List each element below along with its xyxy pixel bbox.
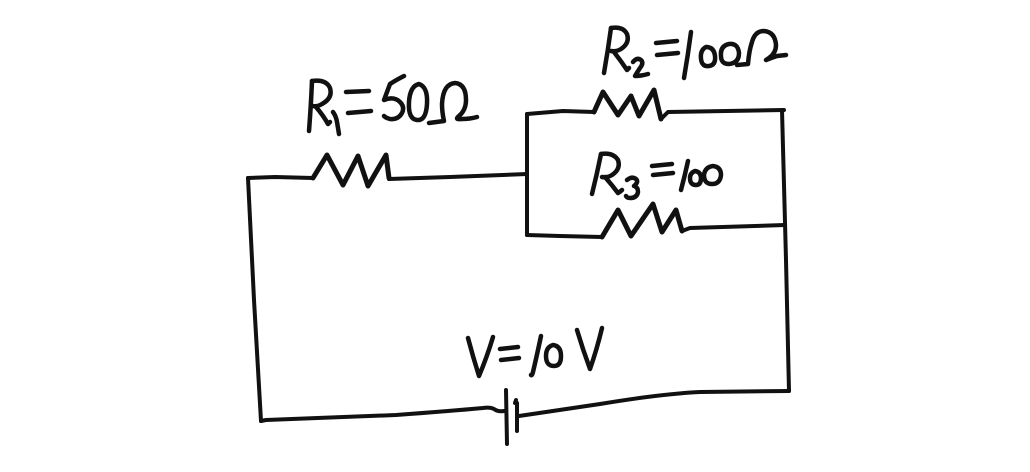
ohm symbol (737, 31, 786, 65)
digit 1 (531, 336, 541, 375)
wire: bottom wire right of battery to bottom-right corner (519, 391, 789, 416)
wire: left edge of outer loop (248, 178, 261, 421)
resistor R1 (313, 155, 389, 186)
equals sign (652, 164, 672, 166)
subscript 2 of R2 (633, 59, 648, 76)
digit 5 (384, 76, 404, 119)
battery V1 long plate (positive) (506, 390, 507, 444)
equals sign (656, 41, 677, 43)
letter R of R3 (592, 154, 601, 194)
equals sign (346, 91, 369, 92)
letter R of R2 (604, 28, 611, 73)
subscript 1 of R1 (333, 112, 339, 134)
digit 0 (701, 47, 715, 66)
wire: box bottom edge left of R3 (527, 235, 602, 237)
ohm symbol (429, 83, 477, 123)
digit 1 (681, 161, 688, 190)
wire: top-left horizontal segment from left corner to R1 (248, 177, 313, 178)
wire: R1 to parallel box left edge (389, 174, 527, 179)
label R1 = 50 ohm (309, 76, 477, 134)
wire: bottom wire left of battery V1 (261, 408, 504, 421)
wire: right edge of outer loop (shared with parallel box right side) (782, 110, 789, 391)
digit 0 (704, 166, 721, 184)
equals sign (500, 347, 518, 349)
label R3 = 100 (592, 154, 721, 198)
wire: box top edge right of R2 (661, 110, 784, 119)
resistor R2 (594, 90, 661, 119)
label R2 = 100 ohm (604, 28, 786, 78)
digit 0 (721, 44, 739, 64)
resistor R3 (602, 204, 682, 237)
letter V (577, 328, 602, 369)
digit 0 (409, 84, 427, 120)
digit 0 (546, 345, 561, 366)
wire: box bottom edge right of R3 (682, 225, 785, 231)
wire: parallel box left edge (node between R1, R2, R3) (525, 114, 529, 235)
label V = 10 V (468, 328, 602, 376)
wire: box top edge left of R2 (527, 111, 594, 114)
digit 0 (690, 171, 701, 185)
letter V (468, 337, 493, 376)
battery V1 short plate (negative) (515, 400, 517, 431)
digit 1 (684, 32, 691, 78)
letter R of R1 (309, 81, 312, 131)
subscript 3 of R3 (626, 178, 638, 198)
